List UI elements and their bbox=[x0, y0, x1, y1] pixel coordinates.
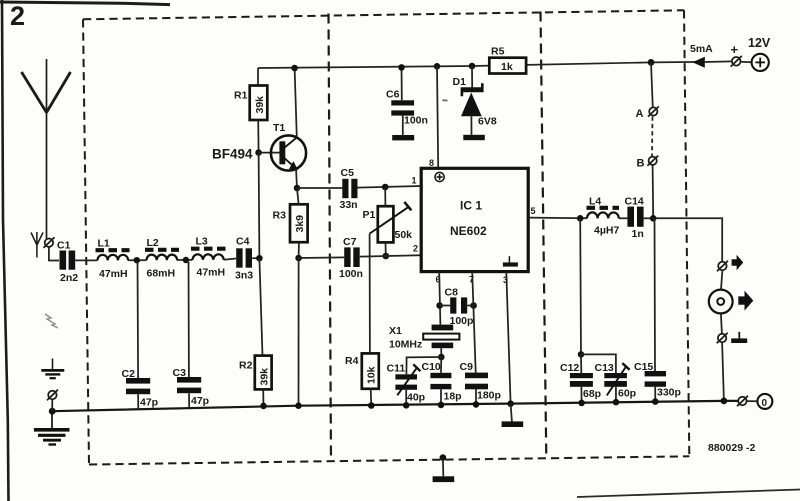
supply arrow bbox=[692, 57, 705, 68]
node C13 bus bbox=[613, 399, 620, 406]
small antenna glyph bbox=[31, 232, 43, 258]
node X1 bottom bbox=[438, 354, 445, 361]
svg-text:60p: 60p bbox=[618, 388, 636, 400]
value 6V8 bbox=[478, 116, 497, 128]
svg-text:T1: T1 bbox=[273, 122, 285, 134]
wire L4 node down to C12 bbox=[579, 218, 582, 354]
svg-text:100n: 100n bbox=[404, 115, 428, 127]
wire L3 to C4 bbox=[224, 259, 236, 260]
svg-text:R5: R5 bbox=[491, 46, 505, 58]
ground C6 bbox=[392, 135, 414, 140]
wire L1 to L2 bbox=[128, 259, 147, 261]
label BF494 bbox=[212, 147, 253, 162]
svg-text:C9: C9 bbox=[460, 361, 474, 373]
label C8 bbox=[445, 287, 459, 299]
svg-text:R1: R1 bbox=[234, 90, 248, 102]
wire P1 bottom to node bbox=[385, 242, 387, 256]
svg-text:L1: L1 bbox=[98, 238, 110, 250]
resistor R1 bbox=[250, 86, 268, 121]
label L1 bbox=[98, 238, 110, 250]
page border top-left bbox=[0, 0, 170, 501]
pin number 5 bbox=[531, 206, 536, 216]
inductor L1 bbox=[96, 250, 130, 260]
label C9 bbox=[460, 361, 474, 373]
wire C11 to bus bbox=[405, 390, 407, 406]
svg-text:1n: 1n bbox=[632, 228, 644, 240]
svg-text:4µH7: 4µH7 bbox=[594, 225, 619, 237]
svg-text:68mH: 68mH bbox=[147, 268, 176, 280]
terminal 12V bbox=[752, 54, 769, 71]
wire rail to R1 bbox=[257, 68, 259, 86]
wire to 0 terminal bbox=[747, 400, 758, 402]
shield dashed divider right bbox=[541, 12, 547, 458]
wire emitter node to C5 bbox=[297, 187, 342, 189]
wire socket to phono bbox=[721, 270, 722, 289]
svg-text:2n2: 2n2 bbox=[60, 272, 78, 284]
wire C8 right bbox=[467, 305, 473, 307]
value 100n bbox=[404, 115, 428, 127]
wire tap to C12 bbox=[580, 354, 582, 373]
node L4/C12 bbox=[577, 215, 584, 222]
svg-text:8: 8 bbox=[429, 158, 434, 168]
dashed link wire A-B bbox=[651, 117, 654, 157]
page border bottom-right bbox=[577, 490, 800, 498]
capacitor C14 bbox=[627, 207, 643, 227]
wire C7 to pin2 bbox=[360, 255, 421, 256]
label 5mA bbox=[690, 43, 713, 55]
value 33n bbox=[340, 199, 358, 211]
label plus bbox=[731, 42, 739, 57]
antenna bbox=[22, 59, 71, 239]
capacitor C7 bbox=[344, 247, 359, 267]
svg-text:1: 1 bbox=[412, 176, 417, 186]
svg-text:C12: C12 bbox=[560, 362, 579, 374]
output socket lower bbox=[717, 333, 728, 343]
node D1 rail bbox=[469, 63, 476, 70]
capacitor C5 bbox=[342, 179, 357, 198]
svg-text:68p: 68p bbox=[583, 388, 601, 400]
wire L2 to L3 bbox=[177, 259, 192, 261]
node C9 bus bbox=[473, 401, 480, 408]
wire R3 to node bbox=[298, 242, 300, 258]
resistor R5 bbox=[489, 58, 526, 74]
capacitor C11 trimmer bbox=[395, 364, 420, 395]
wire C3 bottom bbox=[188, 393, 190, 409]
label R2 bbox=[239, 360, 253, 372]
svg-text:R4: R4 bbox=[345, 355, 359, 367]
phono jack bbox=[709, 290, 733, 314]
svg-text:C3: C3 bbox=[173, 367, 187, 379]
capacitor C13 trimmer bbox=[604, 363, 629, 395]
resistor R3 bbox=[290, 204, 308, 242]
pin number 1 bbox=[412, 176, 417, 186]
node L1/L2/C2 bbox=[134, 257, 140, 263]
node pin3 bus bbox=[507, 400, 514, 407]
svg-text:A: A bbox=[636, 108, 644, 120]
svg-text:3k9: 3k9 bbox=[294, 215, 306, 233]
capacitor C6 bbox=[391, 100, 414, 115]
svg-text:C4: C4 bbox=[236, 236, 250, 248]
capacitor C1 bbox=[60, 251, 76, 270]
label C4 bbox=[236, 236, 250, 248]
svg-text:47p: 47p bbox=[140, 397, 158, 409]
label T1 bbox=[273, 122, 285, 134]
wire C2 top bbox=[137, 262, 140, 378]
crystal X1 bbox=[423, 325, 459, 357]
node C10 bus bbox=[438, 402, 445, 409]
svg-text:L3: L3 bbox=[196, 236, 208, 248]
svg-text:39k: 39k bbox=[259, 368, 271, 386]
svg-text:NE602: NE602 bbox=[450, 224, 487, 238]
svg-text:+: + bbox=[731, 42, 739, 57]
label A bbox=[636, 108, 644, 120]
label C6 bbox=[386, 89, 400, 101]
value 60p bbox=[618, 388, 636, 400]
value 68p bbox=[583, 388, 601, 400]
earth ground big bbox=[34, 411, 70, 445]
value 100n bbox=[339, 268, 363, 280]
wire C5 to pin1 bbox=[358, 186, 422, 188]
svg-text:L4: L4 bbox=[589, 196, 601, 208]
wire C8 left bbox=[440, 305, 451, 307]
value 3n3 bbox=[235, 270, 253, 282]
wire emitter down bbox=[296, 169, 297, 188]
label L4 bbox=[589, 196, 601, 208]
wire pin5 to L4 bbox=[528, 217, 587, 220]
svg-text:X1: X1 bbox=[389, 325, 402, 337]
wire C9 to bus bbox=[475, 389, 477, 404]
svg-text:2: 2 bbox=[10, 1, 25, 31]
value 47p bbox=[191, 395, 209, 407]
pin number 8 bbox=[429, 158, 434, 168]
value 47p bbox=[140, 397, 158, 409]
wire C2 bottom bbox=[137, 394, 139, 409]
wire R2 to bus bbox=[262, 389, 264, 406]
capacitor C10 bbox=[430, 373, 451, 390]
wire pin7 down bbox=[472, 272, 476, 373]
wire pin8 bbox=[437, 66, 438, 168]
svg-text:330p: 330p bbox=[657, 387, 681, 399]
capacitor C9 bbox=[465, 373, 488, 390]
svg-text:C15: C15 bbox=[634, 361, 653, 373]
label R5 bbox=[491, 46, 505, 58]
svg-text:B: B bbox=[637, 158, 645, 170]
node rail A-tap bbox=[648, 59, 655, 66]
label C7 bbox=[343, 236, 357, 248]
wire socket lower to bus bbox=[722, 342, 724, 401]
node C15 bus bbox=[652, 398, 659, 405]
wire base bbox=[259, 152, 280, 154]
inductor L2 bbox=[145, 250, 179, 260]
node C6 rail bbox=[398, 64, 405, 71]
label C1 bbox=[57, 240, 71, 252]
value 10MHz bbox=[389, 339, 422, 351]
wire C1 to L1 bbox=[75, 259, 97, 261]
svg-text:100n: 100n bbox=[339, 268, 363, 280]
wire C14 to output node bbox=[644, 217, 654, 219]
svg-text:47p: 47p bbox=[191, 395, 209, 407]
scan noise squiggle bbox=[45, 314, 58, 328]
label R1 bbox=[234, 90, 248, 102]
wire node to P1 bbox=[384, 187, 386, 206]
node emitter bus bbox=[295, 402, 302, 409]
node P1 bottom pin2 bbox=[383, 253, 390, 260]
value 180p bbox=[477, 390, 501, 402]
wire base node to C4 node bbox=[258, 153, 261, 259]
svg-text:C5: C5 bbox=[341, 167, 355, 179]
svg-text:10k: 10k bbox=[366, 366, 378, 384]
label 880029-2 bbox=[708, 442, 755, 454]
label R4 bbox=[345, 355, 359, 367]
value 2n2 bbox=[60, 272, 78, 284]
value 18p bbox=[444, 391, 462, 403]
svg-text:47mH: 47mH bbox=[197, 267, 226, 279]
node R2 bus bbox=[260, 403, 267, 410]
label C10 bbox=[422, 361, 441, 373]
zener diode D1 bbox=[461, 66, 484, 135]
figure number 2 bbox=[10, 1, 25, 31]
svg-text:C2: C2 bbox=[122, 368, 136, 380]
node shield ground bbox=[440, 454, 447, 461]
link A socket bbox=[648, 106, 659, 116]
wire node down to bus bbox=[298, 258, 300, 406]
node C11 bus bbox=[403, 402, 410, 409]
wire rail to C6 bbox=[401, 67, 403, 100]
node C12/C13 tap bbox=[578, 351, 585, 358]
wire emitter node to R3 bbox=[297, 188, 299, 204]
pin number 6 bbox=[436, 275, 441, 285]
node output bus bbox=[721, 398, 728, 405]
svg-text:12V: 12V bbox=[748, 36, 771, 50]
output socket upper bbox=[717, 261, 728, 271]
ground pin3 bbox=[502, 404, 524, 427]
svg-text:50k: 50k bbox=[395, 229, 413, 241]
svg-text:39k: 39k bbox=[254, 96, 266, 114]
svg-text:10MHz: 10MHz bbox=[389, 339, 422, 351]
resistor R2 bbox=[255, 356, 272, 390]
wire node to R2 bbox=[259, 258, 262, 355]
value 4uH7 bbox=[594, 225, 619, 237]
ground bus wire bbox=[52, 401, 738, 411]
wire tap to C13 bbox=[581, 354, 616, 373]
label C11 bbox=[387, 363, 406, 375]
ground shield bbox=[433, 458, 455, 482]
value 50k bbox=[395, 229, 413, 241]
label X1 bbox=[389, 325, 402, 337]
value 68mH bbox=[147, 268, 176, 280]
node R4 bus bbox=[368, 402, 375, 409]
svg-text:IC 1: IC 1 bbox=[460, 199, 482, 213]
pin number 2 bbox=[413, 244, 418, 254]
IC1 polarity mark bbox=[435, 172, 444, 181]
small earth symbol upper bbox=[41, 359, 64, 379]
capacitor C3 bbox=[177, 377, 201, 393]
node C8 left bbox=[436, 302, 443, 309]
wire B to output node bbox=[652, 165, 655, 219]
value 47mH bbox=[99, 268, 128, 280]
svg-text:18p: 18p bbox=[444, 391, 462, 403]
wire pin6 down bbox=[439, 272, 440, 325]
svg-text:180p: 180p bbox=[477, 390, 501, 402]
svg-text:D1: D1 bbox=[453, 76, 467, 88]
label P1 bbox=[363, 209, 376, 221]
wire C15 to bus bbox=[654, 387, 656, 402]
node P1 top bbox=[382, 184, 389, 191]
node C4/R2 bbox=[256, 255, 263, 262]
node pin8 rail bbox=[434, 63, 441, 70]
svg-text:40p: 40p bbox=[407, 392, 425, 404]
supply rail wire bbox=[258, 62, 705, 68]
svg-text:2: 2 bbox=[413, 244, 418, 254]
svg-text:C14: C14 bbox=[625, 196, 644, 208]
svg-text:3n3: 3n3 bbox=[235, 270, 253, 282]
svg-text:P1: P1 bbox=[363, 209, 376, 221]
wire C4 to base node bbox=[252, 257, 259, 259]
svg-text:33n: 33n bbox=[340, 199, 358, 211]
svg-text:6V8: 6V8 bbox=[478, 116, 497, 128]
wire output node down to C15 bbox=[654, 218, 657, 371]
link B socket bbox=[647, 156, 658, 166]
value 100p bbox=[450, 315, 474, 327]
label C14 bbox=[625, 196, 644, 208]
ground D1 bbox=[463, 135, 485, 140]
arrow output upper bbox=[732, 255, 744, 270]
svg-text:0: 0 bbox=[762, 398, 768, 409]
svg-text:5: 5 bbox=[531, 206, 536, 216]
label C5 bbox=[341, 167, 355, 179]
label B bbox=[637, 158, 645, 170]
svg-text:BF494: BF494 bbox=[212, 147, 253, 162]
wire C13 to bus bbox=[615, 387, 617, 402]
value 47mH bbox=[197, 267, 226, 279]
node emitter/C5/R3 bbox=[294, 185, 301, 192]
inductor L4 bbox=[587, 208, 620, 219]
node base bbox=[255, 149, 262, 156]
wire R4 to bus bbox=[370, 389, 373, 406]
label C15 bbox=[634, 361, 653, 373]
capacitor C2 bbox=[126, 378, 150, 394]
wire pin3 down bbox=[506, 272, 510, 404]
svg-text:C7: C7 bbox=[343, 236, 357, 248]
svg-text:47mH: 47mH bbox=[99, 268, 128, 280]
earth input socket bbox=[47, 390, 58, 411]
label L3 bbox=[196, 236, 208, 248]
IC1 internal ground bbox=[503, 256, 518, 266]
node L2/L3/C3 bbox=[183, 257, 189, 263]
op-amp IC1 NE602 body bbox=[421, 168, 528, 271]
wire X1 node to C11 bbox=[406, 357, 441, 374]
wire R3 node to C7 bbox=[299, 256, 345, 259]
shield dashed box outer bbox=[83, 10, 689, 464]
transistor T1 bbox=[271, 135, 306, 170]
noise tick bbox=[443, 99, 448, 101]
chassis symbol bbox=[731, 332, 747, 343]
capacitor C12 bbox=[570, 373, 593, 387]
wire rail to A bbox=[651, 62, 653, 107]
wire R1 to base node bbox=[257, 120, 259, 153]
value 40p bbox=[407, 392, 425, 404]
wire L4 to C14 bbox=[619, 217, 628, 219]
svg-text:C1: C1 bbox=[57, 240, 71, 252]
wire output to right column bbox=[653, 218, 722, 262]
pin number 7 bbox=[469, 275, 474, 285]
wire collector to rail bbox=[295, 68, 297, 138]
node bus antenna input bbox=[49, 408, 56, 415]
value 330p bbox=[657, 387, 681, 399]
wire socket to 12V bbox=[741, 61, 752, 64]
svg-text:R2: R2 bbox=[239, 360, 253, 372]
label C2 bbox=[122, 368, 136, 380]
antenna input socket bbox=[44, 237, 55, 248]
wire X1 node to C10 bbox=[440, 357, 442, 373]
node collector rail bbox=[291, 65, 298, 72]
arrow output main bbox=[738, 291, 753, 311]
label 12V bbox=[748, 36, 771, 50]
wire phono to socket lower bbox=[721, 313, 722, 333]
label R3 bbox=[273, 210, 287, 222]
svg-text:C13: C13 bbox=[595, 362, 614, 374]
label L2 bbox=[147, 237, 159, 249]
wire arrow to supply socket bbox=[705, 60, 732, 63]
svg-text:R3: R3 bbox=[273, 210, 287, 222]
label C3 bbox=[173, 367, 187, 379]
svg-text:1k: 1k bbox=[501, 61, 513, 73]
supply socket bbox=[731, 56, 742, 67]
resistor R4 bbox=[362, 353, 379, 388]
node R3/C7 bbox=[295, 255, 302, 262]
svg-text:L2: L2 bbox=[147, 237, 159, 249]
capacitor C8 bbox=[450, 297, 467, 313]
wire C12 to bus bbox=[580, 387, 582, 403]
svg-text:C6: C6 bbox=[386, 89, 400, 101]
node C12 bus bbox=[578, 400, 585, 407]
capacitor C15 bbox=[645, 371, 666, 387]
shield dashed divider left bbox=[329, 14, 332, 462]
pin number 3 bbox=[503, 275, 508, 285]
label D1 bbox=[453, 76, 467, 88]
label C12 bbox=[560, 362, 579, 374]
svg-text:C8: C8 bbox=[445, 287, 459, 299]
wire C3 top bbox=[188, 262, 190, 377]
value 1n bbox=[632, 228, 644, 240]
svg-text:880029 -2: 880029 -2 bbox=[708, 442, 755, 454]
svg-text:C10: C10 bbox=[422, 361, 441, 373]
node C8 right bbox=[470, 302, 477, 309]
wire P1 wiper to R4 bbox=[369, 234, 371, 354]
wire C10 to bus bbox=[440, 389, 442, 405]
svg-text:5mA: 5mA bbox=[690, 43, 713, 55]
wire C6 to ground bbox=[402, 116, 404, 135]
terminal 0 bbox=[757, 394, 772, 409]
bus output socket bbox=[737, 396, 748, 406]
wire antenna socket to C1 bbox=[49, 247, 59, 261]
potentiometer P1 bbox=[370, 202, 412, 243]
node output junction bbox=[650, 215, 657, 222]
capacitor C4 bbox=[236, 248, 252, 267]
inductor L3 bbox=[191, 249, 226, 260]
svg-text:C11: C11 bbox=[387, 363, 406, 375]
label C13 bbox=[595, 362, 614, 374]
